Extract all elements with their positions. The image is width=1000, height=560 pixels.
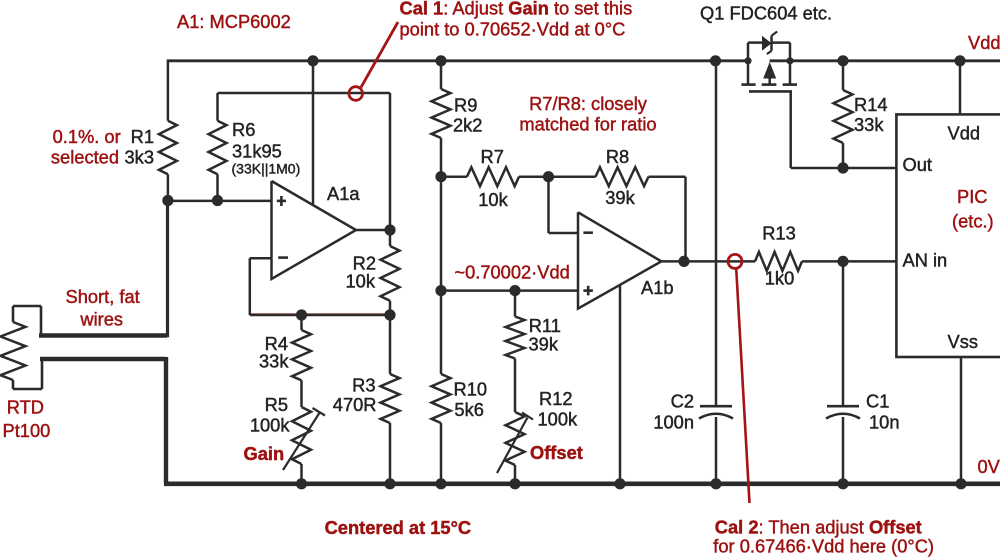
svg-text:C2: C2	[671, 391, 694, 412]
svg-text:R7/R8: closely: R7/R8: closely	[529, 93, 648, 114]
svg-text:Gain: Gain	[244, 443, 285, 464]
svg-text:matched for ratio: matched for ratio	[519, 114, 656, 135]
svg-text:~0.70002·Vdd: ~0.70002·Vdd	[454, 262, 569, 283]
svg-text:10k: 10k	[346, 271, 376, 292]
svg-text:R9: R9	[454, 95, 477, 116]
svg-text:Vdd: Vdd	[968, 32, 1000, 53]
svg-text:R5: R5	[265, 394, 288, 415]
svg-text:R13: R13	[762, 223, 796, 244]
svg-text:R14: R14	[854, 94, 888, 115]
svg-text:for 0.67466·Vdd here (0°C): for 0.67466·Vdd here (0°C)	[713, 536, 934, 557]
svg-text:AN in: AN in	[903, 250, 948, 271]
svg-text:A1a: A1a	[327, 183, 360, 204]
svg-text:R6: R6	[232, 119, 255, 140]
svg-text:Q1 FDC604 etc.: Q1 FDC604 etc.	[700, 3, 832, 24]
svg-text:Centered at 15°C: Centered at 15°C	[325, 517, 472, 538]
svg-text:39k: 39k	[605, 187, 635, 208]
svg-text:31k95: 31k95	[232, 141, 282, 162]
svg-text:33k: 33k	[854, 114, 884, 135]
svg-text:Cal 2: Then adjust Offset: Cal 2: Then adjust Offset	[715, 516, 922, 537]
svg-text:470R: 470R	[333, 394, 377, 415]
svg-text:10k: 10k	[478, 189, 508, 210]
svg-text:(etc.): (etc.)	[952, 211, 994, 232]
svg-text:39k: 39k	[529, 334, 559, 355]
svg-text:A1: MCP6002: A1: MCP6002	[177, 11, 291, 32]
svg-text:A1b: A1b	[641, 277, 674, 298]
svg-text:PIC: PIC	[957, 186, 987, 207]
svg-text:R8: R8	[606, 146, 629, 167]
svg-text:Vdd: Vdd	[948, 123, 981, 144]
svg-text:0.1%. or: 0.1%. or	[53, 126, 121, 147]
svg-text:point to 0.70652·Vdd at 0°C: point to 0.70652·Vdd at 0°C	[400, 19, 626, 40]
svg-text:Short, fat: Short, fat	[66, 286, 140, 307]
svg-text:Offset: Offset	[530, 442, 583, 463]
svg-text:0V: 0V	[978, 456, 1000, 477]
svg-text:R7: R7	[481, 146, 504, 167]
svg-text:100n: 100n	[653, 412, 694, 433]
svg-text:(33K||1M0): (33K||1M0)	[232, 161, 301, 177]
svg-text:R12: R12	[539, 388, 573, 409]
svg-text:5k6: 5k6	[454, 399, 483, 420]
svg-text:RTD: RTD	[7, 397, 44, 418]
svg-text:R10: R10	[454, 379, 488, 400]
svg-text:100k: 100k	[250, 415, 291, 436]
svg-text:33k: 33k	[259, 351, 289, 372]
svg-text:R3: R3	[352, 375, 375, 396]
svg-text:wires: wires	[79, 309, 123, 330]
svg-text:Vss: Vss	[948, 331, 978, 352]
svg-text:C1: C1	[866, 391, 889, 412]
svg-text:1k0: 1k0	[765, 268, 794, 289]
svg-text:R1: R1	[131, 126, 154, 147]
svg-text:3k3: 3k3	[125, 147, 154, 168]
svg-text:10n: 10n	[869, 412, 900, 433]
svg-text:selected: selected	[51, 147, 119, 168]
svg-text:2k2: 2k2	[453, 115, 482, 136]
svg-text:Out: Out	[903, 154, 932, 175]
svg-text:Cal 1: Adjust Gain to set this: Cal 1: Adjust Gain to set this	[400, 0, 633, 19]
svg-text:Pt100: Pt100	[3, 420, 51, 441]
svg-text:100k: 100k	[538, 409, 579, 430]
